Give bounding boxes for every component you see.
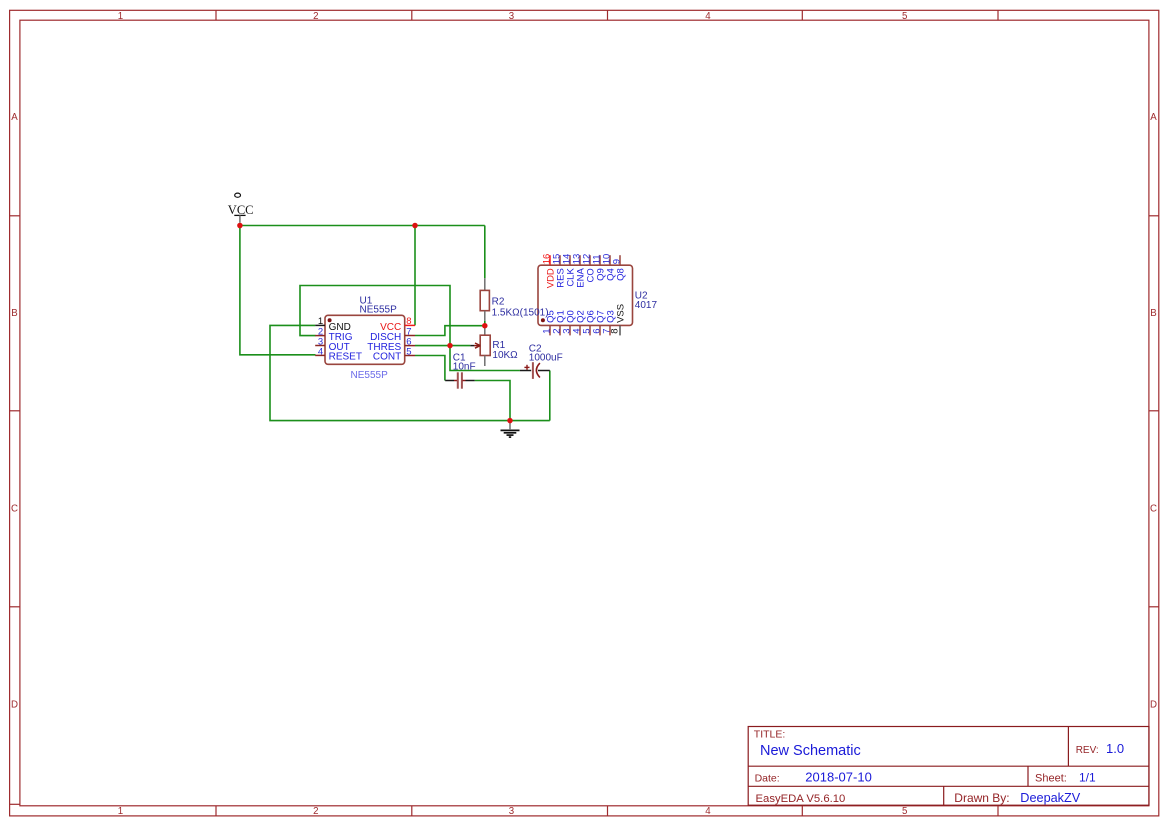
svg-text:B: B	[11, 308, 17, 319]
wire VCC left drop	[240, 226, 316, 355]
U2 bottom pin stubs	[550, 325, 620, 335]
svg-text:New Schematic: New Schematic	[760, 743, 861, 759]
svg-text:1.0: 1.0	[1106, 741, 1124, 756]
pin 4 RESET stub	[315, 354, 325, 356]
svg-text:TITLE:: TITLE:	[754, 729, 786, 741]
U2 top pin stubs	[550, 255, 620, 265]
node R2-R1 junction	[482, 323, 488, 329]
pin 1 GND stub	[315, 324, 325, 326]
svg-text:9: 9	[612, 259, 623, 264]
svg-text:5: 5	[902, 806, 907, 817]
pin 8 VCC stub	[405, 324, 415, 326]
IC U1 NE555P body	[325, 315, 405, 364]
IC U2 4017 body	[538, 265, 633, 325]
pin 7 DISCH stub	[405, 335, 415, 337]
R1 labels	[492, 340, 518, 361]
svg-text:2: 2	[313, 11, 318, 22]
svg-text:EasyEDA V5.6.10: EasyEDA V5.6.10	[756, 793, 846, 805]
svg-text:DeepakZV: DeepakZV	[1020, 791, 1080, 805]
capacitor C2 (polarized)	[520, 362, 550, 379]
svg-text:C: C	[1150, 504, 1157, 515]
netflag VCC	[228, 193, 254, 223]
U1 reference labels	[360, 296, 398, 316]
node pin8 junction	[412, 223, 418, 229]
svg-text:1.5KΩ(1501): 1.5KΩ(1501)	[492, 307, 549, 318]
wire DISCH to R junction	[415, 321, 485, 336]
R2 labels	[492, 296, 549, 318]
svg-text:NE555P: NE555P	[351, 370, 389, 381]
resistor R2	[480, 278, 489, 321]
svg-text:C: C	[11, 504, 18, 515]
svg-text:1: 1	[118, 11, 123, 22]
svg-text:1000uF: 1000uF	[529, 352, 563, 363]
svg-text:B: B	[1150, 308, 1156, 319]
U1 pin numbers left	[318, 316, 323, 357]
svg-text:CONT: CONT	[373, 352, 401, 363]
node VCC junction	[237, 223, 243, 229]
svg-text:Sheet:: Sheet:	[1035, 773, 1067, 785]
wire GND net	[270, 325, 550, 420]
svg-text:4: 4	[318, 346, 323, 357]
svg-text:1/1: 1/1	[1079, 770, 1096, 784]
U1 pin names	[329, 322, 402, 363]
pin 2 TRIG stub	[315, 335, 325, 337]
svg-text:Drawn By:: Drawn By:	[954, 791, 1009, 805]
svg-text:3: 3	[509, 806, 514, 817]
svg-text:A: A	[1150, 112, 1157, 123]
wire VCC to pin8	[414, 226, 416, 326]
U2 top pin numbers	[542, 254, 623, 265]
svg-text:5: 5	[406, 346, 411, 357]
svg-text:8: 8	[610, 329, 621, 334]
svg-text:R2: R2	[492, 296, 505, 307]
pin 5 CONT stub	[405, 355, 415, 357]
svg-text:2018-07-10: 2018-07-10	[805, 769, 872, 784]
svg-text:Q8: Q8	[616, 268, 627, 281]
svg-text:VSS: VSS	[616, 304, 627, 323]
wire TRIG loop	[300, 286, 450, 346]
wire VCC top rail	[240, 225, 485, 227]
wire THRES	[415, 345, 470, 347]
U2 top pin names	[546, 268, 627, 289]
U2 bottom pin names	[546, 304, 627, 323]
svg-text:2: 2	[313, 806, 318, 817]
pin 6 THRES stub	[405, 345, 415, 347]
wire CONT to C1	[415, 356, 445, 381]
svg-text:3: 3	[509, 11, 514, 22]
svg-text:1: 1	[118, 806, 123, 817]
svg-text:A: A	[11, 112, 18, 123]
C2 labels	[529, 343, 563, 363]
svg-text:10KΩ: 10KΩ	[492, 350, 518, 361]
svg-text:4017: 4017	[635, 300, 658, 311]
svg-text:NE555P: NE555P	[360, 305, 398, 316]
U2 reference labels	[635, 290, 658, 311]
resistor R1 (rheostat)	[470, 326, 490, 366]
svg-text:REV:: REV:	[1076, 745, 1099, 756]
svg-text:D: D	[11, 700, 18, 711]
svg-text:D: D	[1150, 700, 1157, 711]
U1 pin numbers right	[406, 316, 411, 357]
svg-text:4: 4	[705, 806, 711, 817]
C1 labels	[453, 352, 476, 372]
wire VCC to R2	[484, 226, 486, 279]
pin 3 OUT stub	[315, 345, 325, 347]
wire C2 to ground rail	[549, 371, 551, 421]
U2 bottom pin numbers	[542, 329, 621, 334]
svg-text:Date:: Date:	[755, 773, 780, 785]
svg-text:RESET: RESET	[329, 352, 362, 363]
capacitor C1	[445, 372, 475, 388]
wire C1 to ground rail	[475, 381, 510, 421]
ground	[501, 421, 520, 438]
svg-text:4: 4	[705, 11, 711, 22]
node THRES junction	[447, 343, 453, 349]
node ground junction	[507, 418, 513, 424]
wire THRES to C2	[450, 346, 520, 371]
svg-text:5: 5	[902, 11, 907, 22]
svg-text:10nF: 10nF	[453, 361, 476, 372]
